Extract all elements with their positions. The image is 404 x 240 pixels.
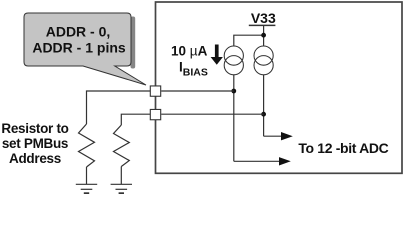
wire ADDR-0 pin to I1 branch — [161, 90, 234, 92]
wire I2 output down — [263, 75, 265, 137]
svg-text:Resistor to: Resistor to — [1, 121, 68, 136]
svg-text:ADDR - 1 pins: ADDR - 1 pins — [32, 40, 126, 56]
junction dot at V33 split — [261, 33, 266, 38]
junction dot I1/ADDR-0 — [231, 89, 236, 94]
callout shadow — [131, 17, 136, 69]
wire R2 to ground — [120, 167, 122, 185]
label Resistor to set PMBus Address — [1, 121, 68, 166]
svg-text:ADDR - 0,: ADDR - 0, — [46, 24, 111, 40]
callout box ADDR pins with tail — [24, 13, 146, 85]
svg-text:V33: V33 — [251, 10, 276, 26]
bias current arrow — [211, 45, 223, 65]
wire to ADC upper with arrowhead — [264, 132, 293, 140]
wire R1 to ground — [86, 167, 88, 184]
V33 power rail bar — [249, 24, 276, 26]
svg-text:To 12 -bit ADC: To 12 -bit ADC — [298, 140, 388, 156]
wire ADDR-0 pin to resistor R1 — [87, 91, 151, 124]
wire ADDR-1 pin to I2 branch — [161, 113, 263, 115]
wire junction to left branch — [234, 35, 264, 46]
junction dot I2/ADDR-1 — [261, 112, 266, 117]
resistor R1 — [79, 124, 95, 167]
svg-text:set PMBus: set PMBus — [2, 136, 68, 151]
svg-text:Address: Address — [9, 151, 61, 166]
svg-text:10 µA: 10 µA — [171, 44, 208, 59]
wire V33 rail to junction — [263, 25, 265, 46]
IC body box — [156, 2, 403, 173]
callout text ADDR-0 ADDR-1 pins — [32, 24, 126, 56]
wire I1 output down — [233, 75, 235, 162]
wire ADDR-1 pin to resistor R2 — [121, 114, 150, 125]
ground GND2 — [111, 184, 132, 193]
resistor R2 — [114, 125, 130, 167]
ground GND1 — [76, 184, 97, 193]
pin ADDR-0 — [150, 86, 160, 96]
current source I1 — [224, 46, 243, 75]
wire to ADC lower with arrowhead — [234, 157, 291, 165]
pin ADDR-1 — [150, 109, 160, 119]
current source I2 — [254, 46, 273, 75]
